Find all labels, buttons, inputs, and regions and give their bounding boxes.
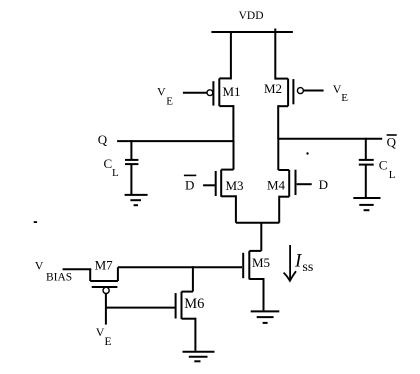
transistor M7 (90, 267, 118, 293)
wire M2 source to VDD (274, 31, 276, 80)
transistor M6 (176, 292, 196, 319)
svg-text:M2: M2 (264, 81, 282, 96)
transistor M4 label (267, 178, 286, 193)
svg-text:V: V (96, 325, 105, 339)
wire M4 gate to D (297, 183, 312, 185)
wire M1 drain to Q (232, 105, 234, 141)
capacitor CL left (125, 140, 138, 194)
node D label (319, 177, 328, 192)
svg-text:E: E (166, 95, 173, 107)
transistor M2 label (264, 81, 282, 96)
wire M2 drain to Qbar (277, 105, 279, 139)
transistor M1 (183, 78, 234, 106)
node Dbar label (184, 175, 196, 192)
node VE left label (157, 85, 173, 108)
svg-text:E: E (105, 336, 112, 348)
svg-text:C: C (104, 156, 113, 171)
transistor M5 label (252, 255, 270, 270)
wire VBIAS to M7 (63, 268, 92, 270)
node VE right label (333, 82, 349, 104)
transistor M3 label (226, 178, 244, 193)
transistor M4 (278, 170, 295, 197)
svg-text:M7: M7 (95, 258, 114, 273)
wire M3 source down (235, 195, 237, 223)
wire bias node to M5 gate (118, 266, 242, 268)
node VDD label (239, 10, 264, 22)
transistor M5 (243, 251, 263, 280)
current Iss label (294, 251, 313, 275)
wire gate node to M6 gate (106, 307, 175, 309)
wire M6 drain to bias node (192, 266, 194, 291)
wire node Q (117, 140, 233, 142)
svg-text:D: D (185, 178, 194, 193)
svg-text:M1: M1 (223, 84, 241, 99)
svg-text:D: D (319, 177, 328, 192)
svg-text:E: E (341, 92, 348, 104)
stray dash mark left margin (34, 221, 37, 223)
node VE bottom label (96, 325, 112, 348)
wire VDD rail (211, 29, 293, 33)
ground below CL right (353, 198, 380, 210)
ground below M5 (251, 311, 280, 323)
wire M3 drain to Q (233, 140, 235, 170)
current arrow Iss (284, 245, 296, 281)
svg-text:M3: M3 (226, 178, 244, 193)
transistor M3 (216, 170, 236, 197)
wire Dbar to M3 gate (203, 184, 215, 186)
wire M5 source to ground (263, 278, 265, 310)
wire M4 source down (278, 196, 280, 223)
junction dot near Qbar (306, 152, 308, 154)
svg-text:M6: M6 (184, 296, 204, 312)
svg-text:M4: M4 (267, 178, 286, 193)
wire node Qbar (278, 138, 382, 140)
svg-text:L: L (112, 167, 119, 179)
svg-text:Q: Q (387, 134, 397, 149)
wire tail node (236, 223, 279, 251)
svg-text:Q: Q (98, 132, 108, 147)
capacitor CL right (359, 138, 374, 197)
transistor M6 label (184, 296, 204, 312)
svg-text:C: C (379, 157, 388, 172)
node Qbar label (387, 134, 397, 149)
ground below CL left (125, 195, 148, 205)
capacitor CL right label (379, 157, 396, 181)
svg-text:ss: ss (302, 260, 313, 275)
capacitor CL left label (104, 156, 120, 179)
svg-text:VDD: VDD (239, 10, 264, 22)
svg-text:L: L (389, 169, 396, 181)
wire M4 drain to Qbar (277, 138, 279, 170)
wire M1 source to VDD (230, 31, 232, 79)
svg-text:BIAS: BIAS (46, 271, 72, 283)
svg-text:V: V (35, 258, 44, 272)
node Q label (98, 132, 108, 147)
node VBIAS label (35, 258, 72, 283)
transistor M2 (275, 79, 323, 107)
svg-text:V: V (157, 85, 166, 99)
svg-text:M5: M5 (252, 255, 270, 270)
wire M7 gate down (105, 294, 107, 325)
transistor M7 label (95, 258, 114, 273)
transistor M1 label (223, 84, 241, 99)
wire M6 source to ground (194, 318, 196, 351)
ground below M6 (183, 352, 215, 362)
